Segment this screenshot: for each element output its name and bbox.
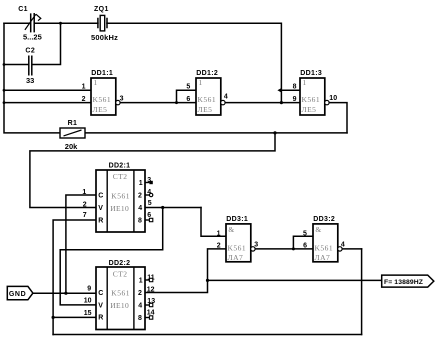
svg-text:R1: R1 (68, 120, 78, 127)
svg-text:R: R (98, 315, 103, 322)
wire C2 row left (4, 64, 28, 66)
svg-text:7: 7 (83, 212, 87, 219)
gate DD3:2 K561LA7 (303, 216, 345, 262)
svg-text:1: 1 (217, 231, 221, 238)
svg-text:33: 33 (26, 76, 34, 85)
wire output row to frequency tag (208, 279, 382, 281)
wire corner down to DD3:1 pin1 (201, 208, 226, 237)
wire DD2:1 pin5 output to corner (145, 207, 201, 209)
wire C1 to ZQ1 (35, 22, 98, 24)
wire left input rail down to R1 (4, 23, 60, 133)
pin 3 nc stub (145, 182, 149, 184)
svg-text:1: 1 (94, 78, 98, 87)
gate DD3:1 K561LA7 (217, 216, 259, 262)
svg-text:2: 2 (82, 96, 86, 103)
svg-text:K561: K561 (302, 95, 321, 104)
pin 11 nc stub (145, 279, 149, 281)
junction DD3:2 pin5 tie (292, 247, 295, 250)
svg-text:12: 12 (147, 286, 155, 293)
svg-text:CT2: CT2 (113, 269, 128, 278)
svg-text:8: 8 (138, 315, 142, 322)
svg-text:K561: K561 (111, 289, 130, 298)
svg-text:2: 2 (83, 201, 87, 208)
svg-text:9: 9 (293, 96, 297, 103)
svg-text:1: 1 (303, 78, 307, 87)
svg-text:4: 4 (138, 205, 142, 212)
wire DD1:1 pin1 row (4, 89, 91, 91)
svg-text:K561: K561 (111, 191, 130, 200)
wire DD3:1 output to DD3:2 pin6 (255, 248, 313, 250)
svg-text:10: 10 (84, 298, 92, 305)
junction rail pin2 (3, 101, 6, 104)
wire DD2:1 pin1 C left and down to GND row (66, 195, 96, 293)
pin 14 nc stub (145, 317, 149, 319)
svg-text:C: C (98, 290, 103, 297)
wire DD2:1 pin7 R left and down reset rail (53, 220, 96, 335)
junction GND row pin1C (64, 292, 67, 295)
gate DD1:3 K561LE5 (293, 70, 338, 115)
wire DD2:2 pin12 output row (145, 249, 226, 293)
svg-text:ИЕ10: ИЕ10 (110, 301, 129, 310)
crystal ZQ1 (91, 6, 118, 42)
svg-text:10: 10 (329, 95, 337, 102)
junction output tag row (206, 279, 209, 282)
svg-text:1: 1 (139, 277, 143, 284)
svg-text:2: 2 (217, 243, 221, 250)
svg-text:ЛА7: ЛА7 (228, 253, 244, 262)
pin 13 nc stub (145, 304, 149, 306)
svg-text:500kHz: 500kHz (91, 33, 118, 42)
node GND tag (7, 286, 33, 299)
wire branch down from pin5 to DD2:2 pin10 V (60, 208, 163, 305)
junction DD2:1 pin5 branch (161, 206, 164, 209)
svg-text:ЛЕ5: ЛЕ5 (198, 105, 213, 114)
wire GND row to DD2:2 pin9 C (33, 292, 96, 294)
svg-text:K561: K561 (93, 95, 112, 104)
wire top row rail to C1 (4, 22, 30, 24)
svg-text:DD1:1: DD1:1 (91, 70, 113, 77)
svg-text:F= 13889HZ: F= 13889HZ (384, 279, 423, 286)
node output frequency tag f=13889Hz (382, 275, 434, 287)
wire DD1:3 output right and down (329, 103, 347, 133)
junction DD1:2 pin5 tie (175, 101, 178, 104)
svg-text:5: 5 (303, 231, 307, 238)
svg-text:1: 1 (82, 189, 86, 196)
svg-text:1: 1 (139, 180, 143, 187)
gate DD1:2 K561LE5 (186, 70, 228, 115)
wire bottom reset row (53, 334, 362, 336)
svg-text:K561: K561 (228, 243, 247, 252)
svg-text:1: 1 (199, 78, 203, 87)
svg-text:8: 8 (138, 218, 142, 225)
junction rail C2 (3, 63, 6, 66)
pin 6 nc stub (145, 219, 149, 221)
svg-text:2: 2 (138, 192, 142, 199)
svg-text:GND: GND (9, 291, 26, 298)
resistor R1 (60, 120, 85, 151)
wire DD1:2 pin5 tie stub (177, 90, 197, 102)
svg-text:C2: C2 (25, 48, 35, 55)
pin 4 nc stub (145, 194, 149, 196)
svg-text:15: 15 (84, 310, 92, 317)
svg-text:9: 9 (87, 285, 91, 292)
counter DD2:1 K561IE10 (82, 162, 152, 232)
junction DD2:2 pin15 reset rail (52, 316, 55, 319)
svg-text:C: C (98, 193, 103, 200)
junction DD1:3 pin9 (280, 101, 283, 104)
svg-text:DD1:2: DD1:2 (196, 70, 218, 77)
wire C2 right up to top row (33, 23, 61, 64)
wire DD3:2 output to right corner (342, 248, 362, 250)
svg-text:R: R (98, 218, 103, 225)
wire DD3:2 pin5 tie stub (293, 236, 313, 249)
svg-text:K561: K561 (315, 243, 334, 252)
svg-text:6: 6 (303, 243, 307, 250)
capacitor C2 (25, 48, 35, 86)
wire right vertical from DD3:2 output down (361, 249, 363, 335)
svg-text:C1: C1 (18, 6, 28, 13)
svg-text:K561: K561 (198, 95, 217, 104)
wire DD1:3 pin8 stub (281, 89, 300, 91)
wire ZQ1 to right corner and down to DD1:3 inputs (107, 23, 281, 102)
svg-text:&: & (228, 225, 234, 234)
svg-text:4: 4 (138, 302, 142, 309)
svg-text:V: V (98, 205, 103, 212)
svg-text:4: 4 (224, 93, 228, 100)
svg-text:DD2:1: DD2:1 (109, 162, 131, 169)
svg-text:5: 5 (186, 84, 190, 91)
junction rail pin1 (3, 89, 6, 92)
wire DD1:1 pin2 row (4, 102, 91, 104)
svg-text:CT2: CT2 (113, 172, 128, 181)
svg-text:6: 6 (186, 96, 190, 103)
svg-text:V: V (98, 302, 103, 309)
wire branch down from feedback to clock row (30, 133, 275, 208)
svg-text:2: 2 (138, 290, 142, 297)
wire feedback row R1 to corner (85, 132, 347, 134)
svg-text:DD2:2: DD2:2 (109, 260, 131, 267)
wire DD2:2 pin15 R stub (53, 316, 96, 318)
op-amp U: gate DD1:1 K561LE5 (82, 70, 124, 115)
svg-text:ИЕ10: ИЕ10 (110, 204, 129, 213)
svg-text:ЛА7: ЛА7 (315, 253, 331, 262)
svg-text:8: 8 (293, 84, 297, 91)
svg-text:DD1:3: DD1:3 (300, 70, 322, 77)
junction arrow DD1:3 pin8 (277, 88, 282, 93)
svg-text:DD3:2: DD3:2 (313, 216, 335, 223)
svg-text:3: 3 (254, 241, 258, 248)
junction C2 top (59, 22, 62, 25)
svg-text:&: & (315, 225, 321, 234)
capacitor C1 (18, 6, 42, 41)
svg-text:ЛЕ5: ЛЕ5 (93, 105, 108, 114)
svg-text:4: 4 (341, 241, 345, 248)
svg-text:20k: 20k (65, 142, 78, 151)
svg-text:5: 5 (148, 200, 152, 207)
counter DD2:2 K561IE10 (84, 260, 155, 330)
svg-text:5...25: 5...25 (23, 32, 42, 41)
svg-text:3: 3 (120, 96, 124, 103)
svg-text:ZQ1: ZQ1 (94, 6, 109, 13)
svg-text:ЛЕ5: ЛЕ5 (302, 105, 317, 114)
wire DD1:2 output to DD1:3 pin9 (225, 102, 300, 104)
svg-text:DD3:1: DD3:1 (226, 216, 248, 223)
svg-text:1: 1 (82, 84, 86, 91)
junction feedback R1 row (273, 131, 276, 134)
wire DD1:1 output to DD1:2 pin6 (120, 102, 196, 104)
